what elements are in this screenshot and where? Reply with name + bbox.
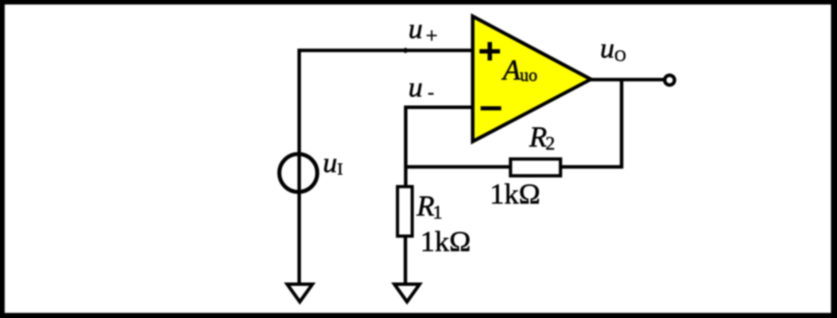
svg-text:1kΩ: 1kΩ	[420, 226, 471, 258]
svg-text:1kΩ: 1kΩ	[490, 178, 541, 210]
